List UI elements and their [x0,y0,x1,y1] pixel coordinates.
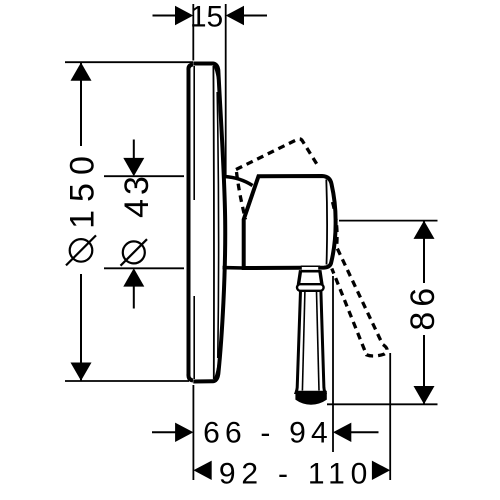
svg-text:15: 15 [190,0,223,33]
dim 43 bottom arrow [123,268,144,286]
svg-text:92 - 110: 92 - 110 [219,457,373,490]
lever arm top curve [225,177,253,186]
dim 43 top extension line [104,175,184,177]
dim 150 top extension line [65,61,193,63]
dim 150 line upper segment [80,63,82,147]
escutcheon plate outline [193,64,225,382]
dashed rotated grip outline [332,202,387,356]
dim 43 top arrow [123,158,144,176]
dim 150 top arrow [71,63,92,81]
neck opening mask [302,265,318,271]
svg-text:43: 43 [118,172,156,218]
dim 66-94 right arrow [333,423,351,442]
plate corner seam top [214,65,220,91]
plate back seam top segment [193,66,195,200]
dim 43 bottom extension line [104,267,184,269]
dim 15 right arrow [226,6,244,25]
svg-text:150: 150 [64,148,102,229]
dim 66-94 left arrow [175,423,193,442]
dim 86 top arrow [414,221,435,239]
dim 150 line lower segment [80,274,82,381]
dim 86 bottom extension line [327,403,438,405]
dim 92-110 right arrow [372,461,390,480]
neck opening thin lines [301,266,320,270]
svg-text:66 - 94: 66 - 94 [203,417,333,450]
plate dome seam line [212,66,215,379]
handle grip outline [296,291,325,393]
grip inner contour left [302,292,305,391]
dim 15 right extension line [225,4,227,177]
grip inner contour right [317,292,320,391]
grip bottom end band [296,391,326,404]
dim 43 top leader [133,140,135,160]
valve body bottom edge extension to plate [223,266,244,270]
dim 86 line upper segment [423,221,425,283]
dim 86 top extension line [339,220,438,222]
dim 92-110 left arrow [193,461,211,480]
dim 15 left arrow [175,6,193,25]
dim 43 diameter symbol [121,239,148,266]
handle collar ring [297,284,324,291]
dim 66-94 left extension line [192,385,194,480]
svg-text:86: 86 [404,283,442,331]
plate back seam bottom segment [193,296,195,379]
dim 15 left extension line [192,4,194,61]
plate corner seam bottom [214,356,220,381]
valve body outline [244,176,336,268]
dim 43 bottom leader [133,286,135,309]
dim 86 bottom arrow [414,386,435,404]
dim 92-110 right extension line [389,353,391,480]
valve body cap seam [325,180,328,265]
dim 150 diameter symbol [66,235,96,265]
dashed lever in raised position [236,139,319,170]
neck top thin line [301,271,320,273]
dim 150 bottom extension line [65,380,189,382]
dashed body slant echo [237,172,246,220]
escutcheon plate back rim [188,65,193,381]
dim 86 line lower segment [423,335,425,404]
handle neck [298,270,322,285]
dim 66-94 right extension line [332,276,334,452]
dim 150 bottom arrow [71,363,92,381]
plate mid contour line [217,92,218,358]
